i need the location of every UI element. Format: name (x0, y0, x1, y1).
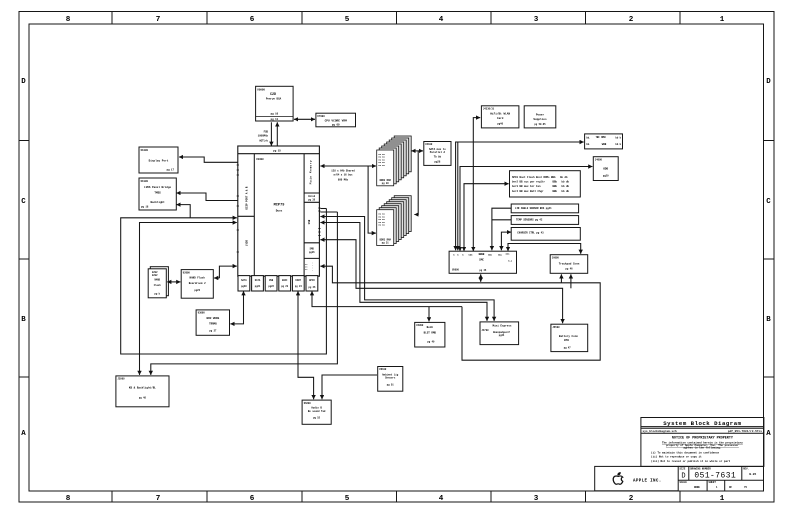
svg-text:pg 15: pg 15 (273, 150, 281, 153)
frame zone letters left (21, 78, 26, 438)
svg-text:pg 24: pg 24 (295, 285, 303, 288)
apple inc text (633, 479, 662, 483)
svg-text:2: 2 (629, 495, 634, 503)
mcp bottom sub-box row (238, 276, 318, 291)
svg-text:(iii) Not to reveal or publish: (iii) Not to reveal or publish it in who… (651, 459, 731, 463)
wire branch to ddr3 bottom (368, 166, 376, 233)
svg-text:BLST RMB: BLST RMB (424, 331, 437, 334)
mcp right edge usb pin ticks (318, 208, 320, 236)
smc bus bar U5000 (449, 251, 516, 273)
svg-text:U4100: U4100 (425, 143, 433, 146)
svg-text:D: D (766, 78, 771, 86)
wire ambient to audio pin2 (322, 375, 377, 399)
svg-text:800 MHz: 800 MHz (338, 179, 349, 182)
svg-text:pg 46: pg 46 (566, 268, 574, 271)
svg-text:U6200: U6200 (304, 402, 312, 405)
svg-text:A: A (766, 430, 771, 438)
svg-text:pg 27: pg 27 (209, 329, 217, 332)
svg-text:pg 52: pg 52 (313, 417, 321, 420)
svg-text:w/64 x 16 bus: w/64 x 16 bus (333, 173, 353, 176)
svg-text:DRAWING NUMBER: DRAWING NUMBER (690, 467, 711, 470)
cpu vcore vrm U7000 (316, 113, 356, 127)
odd drive box (593, 157, 618, 181)
title block (641, 418, 764, 467)
svg-text:E:: E: (305, 268, 308, 271)
svg-text:B: B (766, 316, 771, 324)
wire wrap B mcp right to keyboard (151, 212, 338, 375)
svg-text:ber3 BB mux Air Fan BBb: ber3 BB mux Air Fan BBb bb db (512, 185, 570, 188)
svg-text:Trackpad Conn: Trackpad Conn (559, 261, 580, 265)
display port box U1800 (139, 147, 178, 173)
svg-text:FSB: FSB (264, 130, 269, 133)
svg-text:pg 35: pg 35 (308, 199, 316, 202)
mini pcie box (480, 322, 519, 345)
svg-text:pg 50-65: pg 50-65 (534, 123, 546, 126)
svg-text:B: B (21, 316, 26, 324)
svg-text:pg36: pg36 (309, 251, 315, 254)
wire mcp to ddr3 top (320, 165, 376, 167)
svg-text:TMDS: TMDS (154, 192, 161, 195)
svg-text:Audio B: Audio B (311, 406, 322, 410)
svg-text:REV.: REV. (743, 467, 749, 470)
power supplies note box (524, 106, 556, 128)
svg-text:SCALE: SCALE (680, 481, 688, 484)
title block D size letter (681, 473, 685, 481)
svg-text:LID ANGLE SENSOR BUS pg41: LID ANGLE SENSOR BUS pg41 (515, 207, 552, 210)
svg-text:NONE: NONE (694, 486, 700, 489)
svg-text:Power: Power (536, 112, 545, 116)
svg-text:4: 4 (439, 16, 444, 24)
svg-text:(i) To maintain this document: (i) To maintain this document in confide… (651, 451, 720, 455)
svg-text:Flash: Flash (154, 284, 162, 287)
wire wrap A mcp right to mcp left (121, 209, 327, 355)
wire sata sub1 to ir (230, 291, 243, 324)
svg-text:051-7631: 051-7631 (694, 472, 736, 481)
battery conn box (551, 324, 588, 351)
svg-text:U0900: U0900 (257, 89, 265, 92)
nand controller box (181, 270, 213, 299)
svg-text:pg 11: pg 11 (271, 118, 279, 121)
svg-text:Beardroom 2: Beardroom 2 (189, 281, 206, 285)
svg-text:(ii) Not to reproduce or copy: (ii) Not to reproduce or copy it (651, 455, 702, 459)
keyboard row box 2 (511, 216, 578, 225)
svg-text:UART: UART (296, 279, 302, 282)
airport bt module (481, 106, 519, 128)
svg-text:agrees to the following:: agrees to the following: (683, 446, 721, 450)
svg-text:J4330/31: J4330/31 (483, 107, 495, 110)
svg-text:pg20: pg20 (241, 285, 247, 288)
svg-text:EHCI: EHCI (282, 279, 288, 282)
svg-text:pg 48: pg 48 (139, 396, 147, 399)
wire smc to h1 double arrow (480, 274, 482, 282)
svg-text:TEMP SENSORS pg 42: TEMP SENSORS pg 42 (516, 218, 543, 221)
title block drawing number 051-7631 (694, 472, 736, 481)
svg-text:3: 3 (534, 16, 539, 24)
svg-text:6: 6 (250, 495, 255, 503)
svg-text:A: A (21, 430, 26, 438)
svg-text:Be sound Tad: Be sound Tad (308, 410, 326, 413)
svg-text:Parallel A: Parallel A (430, 150, 446, 154)
svg-text:Mini Express: Mini Express (492, 324, 511, 328)
svg-text:1066MHz: 1066MHz (258, 134, 269, 137)
svg-text:TRRMB: TRRMB (209, 323, 217, 326)
svg-text:pg 17: pg 17 (167, 169, 175, 172)
svg-text:NAND: NAND (154, 278, 160, 281)
svg-text:pg 51: pg 51 (387, 384, 395, 387)
svg-text:ber2 BB sys pwr regltr BBb: ber2 BB sys pwr regltr BBb bb db (512, 181, 570, 184)
svg-text:BRU WURG: BRU WURG (207, 317, 220, 320)
svg-text:U4800: U4800 (416, 324, 424, 327)
bluetooth box (415, 322, 445, 347)
svg-text:NOTICE OF PROPRIETARY PROPERTY: NOTICE OF PROPRIETARY PROPERTY (672, 436, 734, 440)
wire bus H1 right loop (320, 266, 600, 360)
mcp left edge pin ticks (237, 165, 239, 252)
sata bridge U4100 (424, 142, 451, 166)
svg-text:TBF RMB: TBF RMB (596, 136, 607, 139)
svg-text:SIZE: SIZE (680, 467, 686, 470)
svg-text:MCP79: MCP79 (274, 204, 285, 208)
svg-text:WiFi/Bt WLAN: WiFi/Bt WLAN (490, 112, 510, 116)
wire airport down to smc bus (473, 118, 480, 251)
svg-text:OF: OF (729, 486, 732, 489)
svg-text:USB: USB (308, 219, 311, 224)
keyboard row box 1 (511, 204, 578, 213)
audio codec box (302, 400, 331, 424)
title block revision (749, 473, 756, 476)
wire trackpad bottom pin 1 (560, 274, 562, 283)
svg-text:AGTL+b: AGTL+b (259, 139, 268, 142)
svg-text:SHEET: SHEET (709, 481, 717, 484)
svg-text:KB & Backlight/BL: KB & Backlight/BL (129, 385, 156, 389)
svg-text:Tb bb: Tb bb (434, 156, 442, 159)
title block text: System Block Diagram (643, 420, 763, 433)
svg-text:sys_blockdiagram.sch: sys_blockdiagram.sch (643, 429, 677, 433)
svg-text:bb b: bb b (615, 143, 621, 146)
svg-text:128 x 64b Shared: 128 x 64b Shared (331, 170, 355, 173)
svg-text:C: C (766, 198, 771, 206)
svg-text:J6000: J6000 (552, 256, 560, 259)
svg-text:APPLE INC.: APPLE INC. (633, 479, 662, 483)
wire mcp to lvds pin1 (176, 193, 238, 201)
wire usb to mini pin2 (320, 217, 494, 321)
svg-text:pg 31: pg 31 (382, 242, 390, 245)
svg-text:pdf_051-7631/r3.5fcs: pdf_051-7631/r3.5fcs (728, 429, 762, 433)
wire FSB bus cpu-mcp (double) (258, 122, 278, 146)
frame right band ticks (764, 141, 775, 378)
svg-text:pg28: pg28 (434, 160, 440, 163)
svg-text:J4600: J4600 (595, 158, 603, 161)
svg-text:pg 25: pg 25 (308, 286, 316, 289)
svg-text:ber4 BB mux Batt Chgr BBb: ber4 BB mux Batt Chgr BBb bb db (512, 190, 570, 193)
wire ddr3 stack link down (414, 151, 418, 215)
svg-text:U7000: U7000 (317, 115, 325, 118)
svg-text:U1900: U1900 (141, 180, 149, 183)
svg-text:pg 60: pg 60 (332, 123, 340, 126)
svg-text:8: 8 (66, 16, 71, 24)
svg-text:1: 1 (720, 495, 725, 503)
svg-text:ODD: ODD (603, 167, 608, 170)
frame zone numbers top (66, 16, 725, 24)
svg-text:CHARGER CTRL pg 43: CHARGER CTRL pg 43 (517, 231, 544, 234)
svg-text:U5000: U5000 (452, 269, 460, 272)
frame left band ticks (19, 141, 29, 378)
wire trackpad bottom pin 2 (570, 274, 572, 288)
ddr3 stack top (377, 136, 412, 186)
hdd connector box (585, 134, 623, 149)
svg-text:E2 E2: E2 E2 (379, 224, 386, 227)
svg-text:bb.: bb. (586, 136, 590, 139)
svg-text:NAND Flash: NAND Flash (190, 276, 206, 280)
svg-text:bb.: bb. (586, 143, 590, 146)
wire memory bus label (331, 170, 355, 182)
svg-text:SATA: SATA (255, 279, 261, 282)
svg-text:U1800: U1800 (141, 149, 149, 152)
svg-text:5: 5 (345, 495, 350, 503)
wire mcp left pin to keyboard box (140, 223, 237, 375)
svg-text:3: 3 (534, 495, 539, 503)
svg-text:6: 6 (250, 16, 255, 24)
svg-text:U6100: U6100 (379, 368, 387, 371)
svg-text:5: 5 (345, 16, 350, 24)
svg-text:DISP PORT A & B: DISP PORT A & B (246, 186, 249, 209)
svg-text:J2000: J2000 (118, 378, 126, 381)
svg-text:2: 2 (629, 16, 634, 24)
wire usb to mini pin1 (320, 223, 487, 321)
svg-text:Supplies: Supplies (533, 117, 547, 121)
svg-text:pg 45: pg 45 (479, 269, 487, 272)
svg-text:pg21: pg21 (255, 285, 261, 288)
svg-text:pg 23: pg 23 (281, 285, 289, 288)
wire row1 to bus (492, 208, 511, 250)
nand flash stack labels (152, 271, 161, 295)
svg-text:pg 47: pg 47 (564, 347, 572, 350)
svg-text:Card: Card (497, 116, 504, 120)
frame zone numbers bottom (66, 495, 725, 503)
svg-text:pg 49: pg 49 (427, 340, 435, 343)
svg-text:Backlight: Backlight (150, 200, 165, 204)
keyboard row box 3 (511, 228, 580, 241)
wire row2 join (492, 219, 511, 221)
svg-text:Sensors: Sensors (385, 377, 396, 380)
svg-text:U3900: U3900 (256, 158, 264, 161)
wire to trackpad conn top (508, 244, 581, 254)
svg-text:Penryn BGA: Penryn BGA (266, 96, 282, 100)
svg-text:C2D: C2D (270, 93, 276, 97)
svg-text:D: D (21, 78, 26, 86)
svg-text:7: 7 (156, 16, 161, 24)
title block size/drawing labels (680, 467, 750, 489)
frame top band ticks (112, 12, 680, 25)
svg-text:pg40: pg40 (497, 122, 503, 125)
svg-text:pg26: pg26 (194, 289, 200, 292)
svg-text:CPU VCORE VRM: CPU VCORE VRM (325, 120, 347, 123)
svg-text:LVDS: LVDS (246, 239, 249, 246)
wire uart to audio pin1 (298, 291, 314, 399)
svg-text:C: C (21, 198, 26, 206)
svg-text:Display Port: Display Port (149, 159, 169, 163)
svg-text::: : (312, 269, 313, 272)
wire mcp to display port (179, 157, 238, 162)
svg-text:pg b: pg b (154, 292, 160, 295)
wire nand ctrl to mcp (214, 266, 237, 278)
ddr3 stack bottom (377, 196, 412, 246)
svg-text:BBBB: BBBB (479, 253, 485, 256)
svg-text:1: 1 (716, 486, 718, 489)
svg-text:U2600: U2600 (183, 271, 191, 274)
mcp79 U3900 main chip (238, 146, 320, 276)
svg-text:J4700: J4700 (482, 329, 490, 332)
svg-text:Main Memory: Main Memory (309, 160, 313, 185)
svg-text:SMC: SMC (479, 259, 484, 262)
ddr3 stack top labels (379, 153, 392, 185)
svg-text:BTW: BTW (564, 339, 569, 342)
title block notice of proprietary property (651, 436, 743, 463)
ddr3 stack bottom labels (379, 213, 392, 245)
svg-text:BeLE: BeLE (427, 326, 434, 329)
svg-text:E2 E2: E2 E2 (379, 164, 386, 167)
svg-text:Battery Conn: Battery Conn (559, 335, 578, 338)
svg-text:B-05: B-05 (749, 473, 756, 476)
svg-text:LVDS Panel Bridge: LVDS Panel Bridge (144, 185, 171, 189)
nand flash stack (148, 267, 168, 298)
apple logo (613, 473, 623, 485)
frame zone letters right (766, 78, 771, 438)
svg-text:Duos: Duos (276, 210, 283, 213)
wire boot rom to bus (464, 184, 509, 251)
svg-text:USB: USB (269, 279, 274, 282)
svg-text:pg29: pg29 (603, 175, 609, 178)
svg-text:1: 1 (720, 16, 725, 24)
svg-text:pg22: pg22 (268, 285, 274, 288)
boot rom rows box (510, 171, 581, 197)
svg-text:E2E2: E2E2 (152, 274, 158, 277)
ambient light box (378, 367, 403, 392)
wire ddr3 top to sata bridge (412, 150, 424, 152)
wire to odd (460, 167, 592, 252)
cpu U0900 (256, 86, 294, 121)
svg-text:GPIO: GPIO (309, 279, 315, 282)
trackpad conn box (550, 255, 588, 274)
svg-text:pg44: pg44 (499, 334, 505, 337)
wire smc bus to hdd (456, 142, 584, 250)
svg-text:bb b: bb b (615, 136, 621, 139)
svg-text:D: D (681, 473, 685, 481)
svg-text:pg 10: pg 10 (271, 113, 279, 116)
wire gpio loop to bele (312, 291, 462, 321)
svg-text:J6500: J6500 (553, 326, 561, 329)
wire row3 to bus (501, 232, 511, 250)
svg-text:pg 30: pg 30 (382, 182, 390, 185)
wire bus H2 to battery (320, 240, 562, 324)
svg-text:System Block Diagram: System Block Diagram (663, 420, 741, 427)
svg-text:SPI0 Boot Flash Boot ROMs BBb: SPI0 Boot Flash Boot ROMs BBb bb db (512, 176, 568, 179)
svg-text:pg 18: pg 18 (141, 206, 149, 209)
svg-text:WBB: WBB (602, 143, 607, 146)
mcp sub-box labels (241, 279, 316, 289)
svg-text:8: 8 (66, 495, 71, 503)
wire cpu to vcore vrm (294, 118, 315, 120)
svg-text:4: 4 (439, 495, 444, 503)
wire nand ctrl to stack (167, 281, 180, 283)
frame bottom band ticks (112, 491, 680, 502)
svg-text:U3000: U3000 (198, 312, 206, 315)
svg-text:75: 75 (744, 486, 747, 489)
title block lower cells (595, 466, 764, 490)
svg-text:SATA: SATA (241, 279, 247, 282)
ir receiver box (196, 310, 229, 335)
svg-text:7: 7 (156, 495, 161, 503)
keyboard backlight box B6700 (116, 376, 169, 407)
wire lvds pin2 join (176, 205, 190, 218)
lvds panel box U1900 (139, 178, 176, 210)
